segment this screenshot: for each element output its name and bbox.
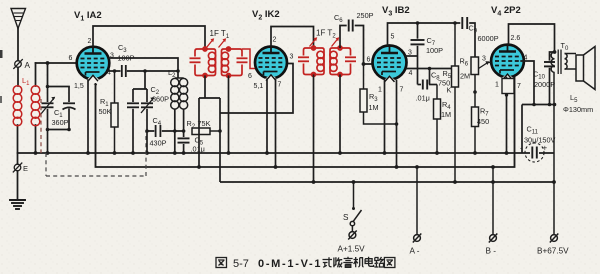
svg-text:5-7: 5-7 — [233, 258, 249, 270]
junction on grid wire — [46, 61, 50, 65]
capacitor C7 — [411, 23, 425, 85]
svg-text:3: 3 — [482, 56, 486, 63]
wire ground bus to terminal E — [17, 153, 19, 164]
junction dots A- bus — [197, 165, 495, 169]
wire V4 grid stub from R6 arrow — [489, 62, 492, 64]
junction dots B+ bus — [312, 180, 556, 184]
IF transformer T1 right tuned winding — [221, 47, 247, 78]
capacitor C1 (variable section) — [41, 87, 56, 130]
wire V4 plate rail to output transformer — [509, 24, 555, 52]
wire B+ feed: output transformer primary down to terminal — [553, 72, 555, 234]
收 — [333, 257, 342, 267]
svg-text:2.6: 2.6 — [511, 35, 521, 42]
svg-text:B -: B - — [486, 247, 497, 256]
wire C1 loop top — [48, 86, 70, 88]
capacitor C5 — [178, 131, 190, 153]
B+ audio bus — [220, 181, 554, 183]
wire IFT2 top to C6 — [340, 26, 347, 49]
svg-text:2000P: 2000P — [534, 80, 555, 89]
wire IFT1 right top to V2 grid (red) — [242, 49, 257, 69]
svg-text:7: 7 — [278, 82, 282, 89]
svg-text:0-M-1-V-1: 0-M-1-V-1 — [258, 258, 322, 270]
wire V3 pin4 to R5 — [406, 68, 452, 70]
svg-text:1M: 1M — [441, 110, 451, 119]
pin labels V2 — [248, 37, 294, 91]
svg-text:1,5: 1,5 — [74, 83, 84, 90]
loudspeaker LS — [576, 47, 595, 90]
wire C1 loop bottom — [48, 129, 70, 131]
电 — [365, 257, 374, 267]
wire C4 row — [147, 130, 184, 132]
antenna — [11, 9, 26, 61]
caption CJK glyphs (drawn) — [216, 257, 395, 268]
pin labels V1 — [69, 38, 115, 91]
pin labels V4 — [482, 35, 528, 90]
svg-text:6000P: 6000P — [478, 34, 499, 43]
resistor R4 — [434, 85, 441, 154]
labels terminals — [338, 213, 570, 256]
svg-text:6: 6 — [367, 57, 371, 64]
transformer To windings — [551, 50, 576, 75]
IFT1 tuning arrows — [207, 38, 227, 47]
wire V3 pin3 stub — [405, 55, 417, 57]
svg-text:360P: 360P — [152, 95, 169, 104]
capacitor C6 — [349, 20, 353, 32]
svg-text:2: 2 — [273, 37, 277, 44]
图 — [384, 258, 395, 268]
scan smudge left edge — [0, 50, 3, 58]
wire grid down to C1 top — [47, 63, 49, 87]
tube V3 — [373, 46, 407, 85]
coil L1 secondary — [31, 86, 40, 126]
resistor R3 — [360, 64, 397, 124]
wire C1 to ground bus — [47, 130, 49, 154]
wire V4 filament pin1 with dropper — [506, 77, 508, 79]
terminal B- — [489, 234, 498, 243]
svg-text:50K: 50K — [99, 107, 112, 116]
svg-text:K: K — [447, 86, 452, 95]
pin labels V3 — [367, 34, 413, 94]
IF transformer T2 left tuned winding — [298, 46, 324, 77]
wire V1 pin4 through C3 to L2 — [107, 70, 178, 72]
resistor R1 — [111, 71, 118, 153]
wire terminal E to ground — [17, 171, 19, 200]
capacitor C2 fixed section — [127, 89, 139, 153]
机 — [354, 257, 364, 267]
图 — [216, 258, 227, 268]
wire R6 to R7 — [473, 75, 477, 108]
wire B- terminal drop — [492, 167, 494, 234]
wire A- terminal drop — [416, 167, 418, 234]
coil L2 — [171, 78, 188, 109]
switch S — [350, 182, 361, 231]
tube V4 — [491, 45, 524, 82]
svg-text:E: E — [23, 164, 28, 173]
terminal E — [13, 163, 21, 172]
coil L1 primary — [13, 86, 22, 126]
svg-text:430P: 430P — [150, 139, 167, 148]
IF transformer T2 right tuned winding — [330, 46, 356, 77]
potentiometer R6 2M — [471, 57, 490, 75]
capacitor C9 — [462, 17, 467, 29]
junction dots ground bus — [46, 151, 509, 155]
svg-text:A -: A - — [410, 247, 420, 256]
wire IFT2 left bottom to B+ bus — [313, 75, 315, 183]
svg-text:100P: 100P — [118, 54, 135, 63]
svg-text:Φ130mm: Φ130mm — [563, 105, 593, 114]
wire V2 plate to IFT2 — [271, 27, 314, 49]
svg-text:6: 6 — [69, 55, 73, 62]
svg-text:250P: 250P — [357, 11, 374, 20]
resistor R7 450 — [472, 107, 479, 153]
wire V1 filament pins down — [87, 79, 89, 153]
ground bus — [18, 152, 555, 154]
svg-text:4: 4 — [409, 70, 413, 77]
wire V3 filament pins down — [384, 80, 386, 154]
capacitor C3 — [122, 65, 126, 77]
wire L2 left bottom to ground bus — [174, 109, 176, 153]
caption — [233, 258, 322, 270]
路 — [374, 257, 384, 267]
wire V1 plate to IFT1 (top) — [93, 26, 205, 49]
svg-text:V4 2P2: V4 2P2 — [491, 5, 521, 18]
svg-text:5,1: 5,1 — [254, 83, 264, 90]
svg-text:5: 5 — [391, 34, 395, 41]
svg-text:V2 IK2: V2 IK2 — [252, 9, 280, 22]
svg-text:B+67.5V: B+67.5V — [537, 247, 569, 256]
terminal A- — [413, 234, 422, 243]
svg-text:30μ/150V: 30μ/150V — [524, 136, 556, 145]
filament return bus (A-) — [96, 76, 515, 167]
wire V2 filament pins down — [266, 78, 268, 153]
wire L1 secondary bottom to bus — [35, 125, 37, 153]
svg-text:360P: 360P — [52, 118, 69, 127]
svg-text:7: 7 — [517, 83, 521, 90]
音 — [343, 257, 353, 268]
wire C2 tap down — [133, 71, 147, 89]
svg-text:.01μ: .01μ — [416, 94, 430, 103]
svg-text:450: 450 — [477, 117, 489, 126]
IF transformer T1 left tuned winding — [190, 47, 216, 78]
svg-text:S: S — [343, 213, 349, 222]
IFT2 tuning arrows — [310, 37, 340, 46]
tube V2 — [255, 47, 287, 83]
svg-text:100P: 100P — [426, 46, 443, 55]
svg-text:2: 2 — [88, 38, 92, 45]
resistor R2 — [192, 128, 220, 135]
wire L2 right bottom to detector node — [183, 109, 185, 131]
svg-text:V1 IA2: V1 IA2 — [74, 10, 102, 23]
wire grid of V1 (node A1) — [36, 62, 78, 64]
wire detector: V2 pin3 down and across to R2 — [220, 64, 293, 183]
capacitor C1 trimmer section — [63, 87, 76, 130]
tube V1 — [77, 47, 110, 83]
terminal A — [14, 60, 22, 69]
dashed gang link — [41, 99, 146, 176]
terminal A+1.5V — [348, 231, 357, 240]
svg-text:A: A — [25, 61, 31, 70]
wire C6 to V3 grid — [355, 26, 373, 65]
svg-text:1: 1 — [378, 87, 382, 94]
wire V4 pin4 (screen) down to B+ row — [520, 61, 534, 105]
wire antenna terminal to L1 primary — [17, 68, 19, 87]
svg-text:1M: 1M — [369, 103, 379, 112]
capacitor C10 — [544, 52, 555, 105]
wire IFT2 right bottom to ground bus — [339, 75, 341, 154]
wire V1 pin3 to L2 top — [109, 58, 179, 78]
svg-text:V3 IB2: V3 IB2 — [382, 5, 410, 18]
svg-text:1: 1 — [495, 82, 499, 89]
svg-text:A+1.5V: A+1.5V — [338, 245, 366, 254]
wire IFT1 left bottom to AVC bus and detector line — [199, 76, 220, 168]
svg-text:.01μ: .01μ — [191, 145, 205, 154]
wire L1 primary bottom to ground bus — [17, 125, 19, 153]
svg-text:7: 7 — [94, 84, 98, 91]
wire B+ row under V4 — [522, 105, 555, 154]
svg-text:2M: 2M — [460, 72, 470, 81]
wire V3 plate rail (to C9 / R6) — [388, 23, 476, 57]
svg-text:6: 6 — [248, 73, 252, 80]
式 — [323, 257, 333, 267]
resistor R5 — [452, 23, 459, 182]
svg-text:7: 7 — [400, 87, 404, 94]
svg-text:3: 3 — [290, 54, 294, 61]
capacitor C4 — [156, 125, 161, 137]
wire L1 secondary top to grid wire — [35, 63, 37, 86]
capacitor C2 variable section — [141, 89, 154, 153]
ground — [10, 200, 25, 209]
wire IFT1 right bottom to ground bus — [228, 76, 230, 154]
capacitor C8 — [418, 69, 438, 90]
svg-text:-: - — [520, 144, 523, 153]
svg-text:+: + — [543, 144, 548, 153]
terminal B+67.5V — [550, 234, 559, 243]
